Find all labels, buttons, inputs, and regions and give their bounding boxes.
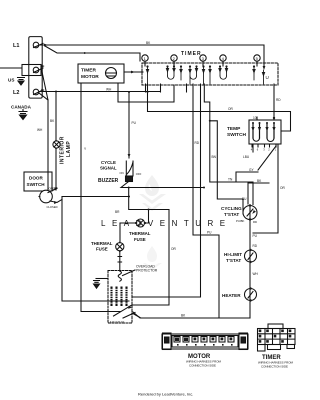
svg-text:BR: BR (115, 210, 120, 214)
timer contacts (146, 65, 266, 84)
svg-text:U: U (266, 75, 269, 80)
thermal fuse F2 (91, 223, 124, 271)
timer terminal 1 (142, 55, 148, 66)
svg-text:SWITCH: SWITCH (27, 182, 46, 187)
svg-text:CYCLING: CYCLING (221, 206, 242, 211)
svg-text:SWITCH: SWITCH (227, 132, 246, 138)
svg-text:PROTECTOR: PROTECTOR (136, 269, 158, 273)
wire timer motor feed Y down to motor (81, 83, 108, 312)
wire PU to buzzer switch (128, 91, 137, 158)
svg-text:T'STAT: T'STAT (226, 258, 241, 263)
svg-text:OR: OR (171, 247, 176, 251)
svg-text:INTERIOR: INTERIOR (60, 136, 66, 164)
svg-text:FUSE: FUSE (96, 247, 108, 252)
svg-text:TIMER: TIMER (81, 68, 96, 74)
svg-text:LBU: LBU (243, 155, 250, 159)
svg-text:OPEN: OPEN (49, 187, 57, 191)
door switch S1 (24, 172, 62, 209)
svg-text:ON: ON (120, 171, 124, 175)
timer drop wires (132, 84, 291, 318)
svg-text:HEATER: HEATER (222, 293, 241, 298)
svg-text:CANADA: CANADA (11, 105, 32, 110)
wire timer motor bottom pin (118, 83, 174, 102)
interior lamp DL1 (53, 92, 72, 191)
svg-text:US: US (8, 78, 14, 83)
wire from left edge to US terminal (0, 67, 21, 69)
svg-text:WH: WH (253, 272, 259, 276)
svg-text:PU: PU (132, 121, 137, 125)
svg-text:L1: L1 (13, 43, 19, 49)
svg-text:LAMP: LAMP (66, 141, 72, 157)
wire US terminal down to door switch (37, 65, 55, 192)
heater HTR1 (222, 272, 259, 302)
svg-text:A MOTOR SW: A MOTOR SW (110, 320, 125, 323)
svg-text:L2: L2 (13, 90, 19, 96)
svg-text:PU: PU (253, 234, 258, 238)
svg-text:PU/BK: PU/BK (236, 219, 245, 223)
ground motor (94, 279, 109, 289)
timer terminal 2 (171, 55, 177, 66)
temp switch S3 (227, 116, 281, 152)
svg-text:BU: BU (242, 197, 247, 201)
svg-text:OFF: OFF (136, 172, 142, 176)
temp switch lower wires (236, 144, 285, 233)
svg-text:RD: RD (253, 220, 257, 224)
svg-text:CLOSED: CLOSED (47, 205, 58, 209)
svg-text:WH: WH (37, 128, 43, 132)
svg-text:CONNECTION SIDE: CONNECTION SIDE (261, 365, 288, 369)
wire L1 to timer terminal 1 (45, 46, 140, 61)
overload protector label (123, 265, 158, 276)
wire L1 BK top run (39, 41, 265, 70)
watermark (101, 175, 232, 270)
svg-text:DOOR: DOOR (29, 176, 43, 181)
svg-text:BN: BN (212, 155, 217, 159)
svg-text:TEMP: TEMP (227, 126, 241, 132)
timer connector (258, 324, 296, 369)
wire timer motor to timer contact (124, 71, 143, 74)
svg-text:RD: RD (253, 244, 258, 248)
svg-text:TIMER: TIMER (181, 51, 202, 57)
wire L2 WH run (39, 88, 160, 93)
wire door switch to buzzer column (62, 196, 130, 198)
svg-text:TN: TN (228, 178, 233, 182)
ground CANADA (11, 105, 32, 120)
svg-text:MOTOR: MOTOR (81, 74, 99, 80)
cycling thermostat (221, 204, 257, 224)
svg-text:OR: OR (280, 186, 285, 190)
svg-text:CYCLE: CYCLE (101, 160, 116, 165)
wire cycling to hi-limit (250, 220, 258, 319)
svg-text:WH: WH (106, 88, 112, 92)
svg-text:BUZZER: BUZZER (98, 178, 119, 184)
wire buzzer to right column (115, 182, 205, 305)
svg-text:RD: RD (195, 141, 200, 145)
svg-text:SIGNAL: SIGNAL (100, 166, 117, 171)
ground US (8, 78, 25, 86)
timer terminal 5 (254, 55, 260, 66)
motor M1 (107, 271, 140, 324)
svg-text:T'STAT: T'STAT (224, 212, 239, 217)
svg-text:Rendered by LeadVenture, Inc.: Rendered by LeadVenture, Inc. (138, 392, 193, 397)
wire door switch to motor (bottom left) (62, 197, 108, 302)
thermal fuse F1 (120, 209, 151, 243)
svg-text:10: 10 (253, 116, 257, 120)
timer terminal 3 (200, 55, 206, 66)
cycle signal buzzer switch S2 (98, 160, 142, 184)
timer terminal 4 (220, 55, 226, 66)
timer assembly (142, 51, 278, 85)
svg-text:CONNECTION SIDE: CONNECTION SIDE (189, 364, 216, 368)
wire heater bottom to motor switch (133, 312, 250, 318)
terminal block TB1 (22, 37, 43, 99)
timer motor B1 (78, 64, 124, 83)
svg-text:FUSE: FUSE (134, 237, 146, 242)
svg-text:THERMAL: THERMAL (91, 241, 113, 246)
motor connector (162, 333, 248, 368)
svg-text:RD: RD (276, 98, 281, 102)
svg-text:OR: OR (228, 107, 233, 111)
svg-text:HI-LIMIT: HI-LIMIT (224, 252, 242, 257)
hi-limit thermostat (224, 249, 257, 263)
svg-text:THERMAL: THERMAL (129, 231, 151, 236)
svg-text:PU: PU (207, 231, 212, 235)
